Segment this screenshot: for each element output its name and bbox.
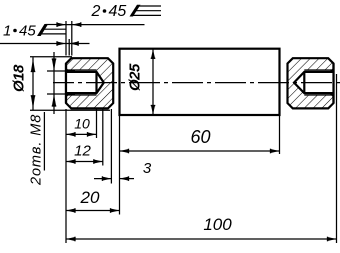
right sleeve outline with chamfers	[288, 58, 334, 108]
extension lines above left chamfers	[65, 21, 67, 56]
svg-text:2: 2	[91, 3, 101, 20]
M8 dim line (outside arrows)	[53, 52, 55, 114]
M8 hole extension lines	[47, 70, 75, 72]
dim 100	[66, 238, 337, 240]
svg-text:12: 12	[74, 142, 91, 159]
left tapped hole M8 (white)	[66, 70, 104, 95]
right tapped hole M8 (white)	[294, 70, 334, 95]
chamfer dimension 2x45 leader	[58, 24, 145, 26]
right hole thread major thin lines	[304, 69, 333, 71]
svg-text:2отв. М8: 2отв. М8	[29, 114, 45, 186]
svg-text:20: 20	[80, 188, 100, 207]
right face line across hole	[332, 64, 334, 104]
svg-text:Ø18: Ø18	[11, 64, 28, 92]
svg-text:3: 3	[143, 160, 152, 177]
left hole entry chamfer	[66, 69, 70, 73]
right hole outline thick	[294, 72, 334, 93]
chamfer dimension 1x45 leader	[0, 43, 90, 45]
svg-text:60: 60	[190, 127, 210, 147]
chamfer symbol for 2x45	[130, 5, 141, 17]
dim 3 (outside arrows)	[94, 178, 111, 180]
dim 12	[66, 161, 103, 163]
axis center line	[53, 82, 340, 84]
diameter dim 18 line	[32, 57, 34, 110]
svg-text:45: 45	[19, 23, 36, 40]
right hole entry chamfer	[330, 69, 334, 73]
dim 60	[120, 150, 280, 152]
svg-text:10: 10	[74, 116, 90, 132]
svg-text:45: 45	[109, 3, 127, 20]
left hole thread major thin lines	[66, 69, 97, 71]
extension lines below part	[65, 109, 67, 243]
middle cylinder	[120, 49, 280, 115]
hole note underline	[43, 112, 45, 171]
chamfer symbol for 1x45	[37, 24, 48, 36]
left face line across hole	[65, 64, 67, 104]
diameter dim 18 extension lines	[30, 56, 72, 58]
dim 20	[66, 210, 120, 212]
diameter dim 25 line	[152, 49, 154, 114]
svg-text:Ø25: Ø25	[127, 63, 144, 91]
left sleeve outline with chamfers	[66, 58, 113, 108]
svg-text:100: 100	[203, 215, 232, 234]
svg-text:1: 1	[3, 23, 11, 40]
left hole outline thick	[66, 72, 104, 93]
dim 10	[66, 133, 97, 135]
